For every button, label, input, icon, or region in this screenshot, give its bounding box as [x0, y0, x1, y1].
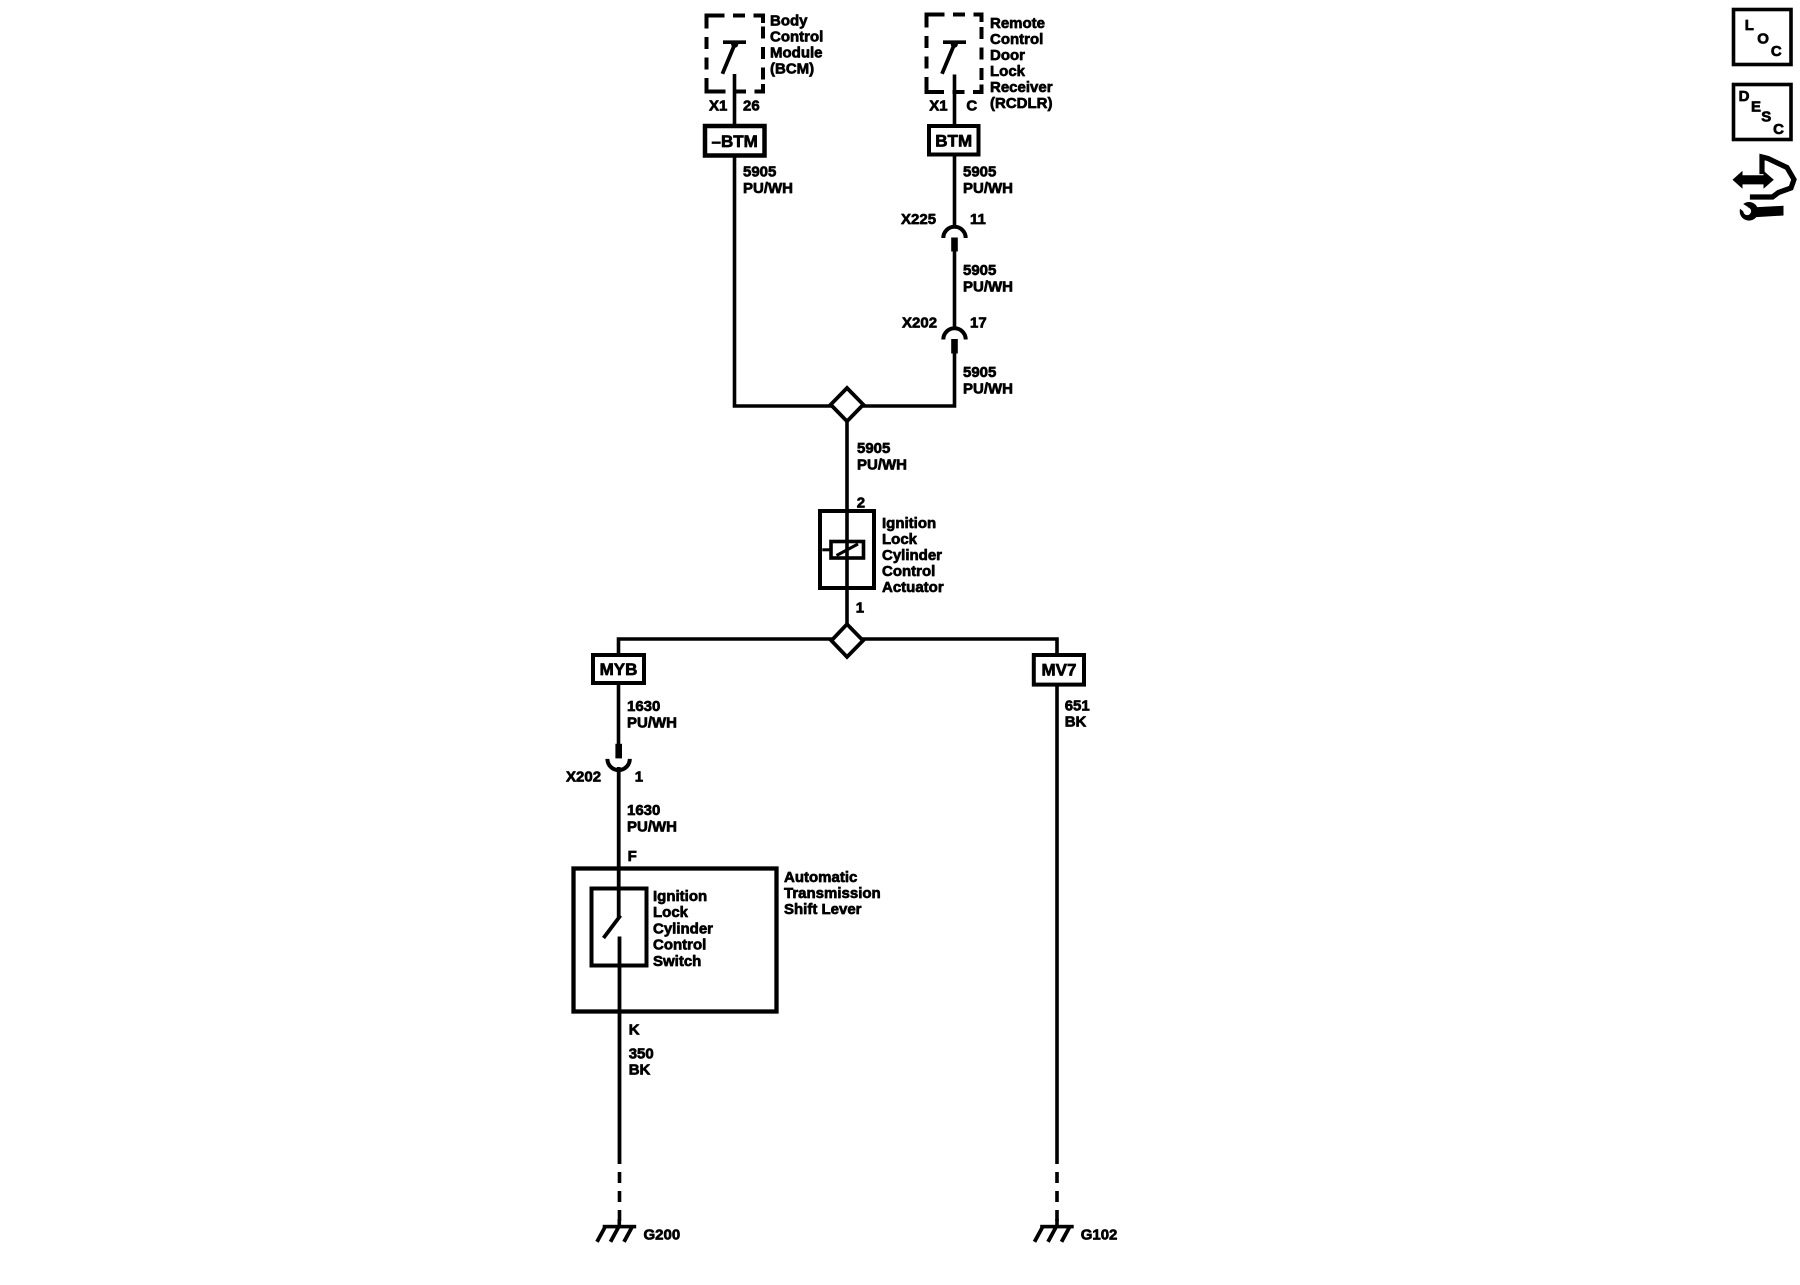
service icon outline shape	[1753, 157, 1795, 197]
svg-text:RemoteControlDoorLockReceiver(: RemoteControlDoorLockReceiver(RCDLR)	[990, 15, 1053, 112]
wire from RCDLR pin C down to X225	[953, 75, 957, 227]
svg-text:C: C	[1771, 43, 1782, 60]
RCDLR internal switch blade	[942, 47, 953, 74]
connector X202 pin 17 (female arc)	[943, 328, 965, 339]
connector MYB box	[593, 655, 644, 683]
splice S2 (diamond)	[831, 624, 863, 657]
connector MV7 box	[1034, 655, 1084, 685]
switch lower contact wire	[618, 937, 622, 1013]
svg-text:F: F	[628, 848, 637, 865]
service icon wrench	[1738, 202, 1784, 221]
ground G200	[597, 1219, 636, 1242]
connector X202 pin 1 (female arc)	[607, 759, 629, 770]
service icon double arrow	[1733, 171, 1774, 189]
BCM internal switch blade	[722, 47, 733, 74]
wire through actuator	[845, 511, 849, 588]
splice S1 (diamond)	[831, 388, 864, 421]
dashed wire to G200	[618, 1172, 622, 1221]
connector X225 pin 11 (female arc)	[943, 227, 965, 238]
svg-text:C: C	[966, 98, 977, 115]
svg-text:C: C	[1773, 121, 1784, 138]
wire X202 pin 1 to shift lever switch (1630 PU/WH)	[617, 767, 621, 917]
module BCM dashed box	[707, 16, 764, 92]
BCM internal switch dot	[731, 41, 738, 48]
svg-text:MYB: MYB	[600, 660, 638, 679]
LOC index box	[1734, 10, 1792, 65]
svg-text:1: 1	[635, 769, 643, 786]
svg-text:E: E	[1751, 99, 1761, 116]
actuator solenoid diagonal	[837, 544, 859, 556]
wire MYB to X202 pin 1 (1630 PU/WH)	[617, 683, 621, 745]
wire MV7 down (651 BK)	[1055, 684, 1059, 1164]
wire X202 to splice junction (5905 PU/WH)	[862, 353, 955, 406]
switch S3 inner box (Ignition Lock Cylinder Control Switch)	[592, 889, 647, 966]
svg-text:5905PU/WH: 5905PU/WH	[963, 364, 1013, 398]
svg-text:11: 11	[970, 211, 986, 228]
RCDLR dashed box corner ticks	[927, 15, 982, 93]
svg-text:1630PU/WH: 1630PU/WH	[627, 698, 677, 732]
actuator dash tick	[822, 548, 831, 551]
connector -BTM box	[705, 126, 765, 156]
svg-text:AutomaticTransmissionShift Lev: AutomaticTransmissionShift Lever	[784, 869, 881, 918]
svg-text:G102: G102	[1081, 1227, 1118, 1244]
svg-text:MV7: MV7	[1042, 660, 1077, 679]
BCM internal switch bar	[723, 40, 746, 44]
svg-text:X1: X1	[929, 98, 947, 115]
wire switch pin K down (350 BK)	[618, 937, 622, 1165]
RCDLR internal switch dot	[951, 41, 958, 48]
svg-text:1: 1	[856, 599, 864, 616]
connector X202 pin 1 (male blade)	[615, 744, 622, 759]
svg-text:BodyControlModule(BCM): BodyControlModule(BCM)	[770, 13, 823, 78]
svg-text:BTM: BTM	[935, 131, 972, 150]
svg-text:5905PU/WH: 5905PU/WH	[963, 164, 1013, 198]
svg-text:L: L	[1745, 17, 1754, 34]
svg-text:26: 26	[743, 98, 760, 115]
connector X202 pin 17 (male blade)	[951, 339, 958, 354]
svg-text:G200: G200	[644, 1227, 681, 1244]
connector BTM box	[929, 126, 979, 155]
svg-text:–BTM: –BTM	[712, 132, 758, 151]
svg-text:X202: X202	[566, 769, 601, 786]
dashed wire to G102	[1055, 1172, 1059, 1221]
wire actuator pin 1 down to splice S2	[845, 588, 849, 626]
svg-text:2: 2	[857, 494, 865, 511]
svg-text:X1: X1	[709, 98, 727, 115]
RCDLR internal switch bar	[943, 40, 966, 44]
svg-text:O: O	[1757, 31, 1769, 48]
svg-text:X225: X225	[901, 211, 936, 228]
ground G102	[1035, 1219, 1074, 1242]
svg-text:5905PU/WH: 5905PU/WH	[743, 164, 793, 198]
svg-text:17: 17	[970, 315, 987, 332]
module RCDLR dashed box	[927, 15, 982, 93]
DESC index box	[1734, 85, 1792, 140]
svg-text:K: K	[629, 1022, 640, 1039]
svg-text:651BK: 651BK	[1065, 697, 1090, 730]
Automatic Transmission Shift Lever box	[574, 869, 777, 1012]
connector X225 pin 11 (male blade)	[951, 238, 958, 252]
wire X225 to X202 (5905 PU/WH)	[953, 251, 957, 328]
svg-text:S: S	[1761, 109, 1771, 126]
wire from BCM pin 26 down to splice junction (5905 PU/WH)	[735, 74, 833, 406]
svg-text:5905PU/WH: 5905PU/WH	[963, 262, 1013, 296]
svg-text:D: D	[1739, 88, 1750, 105]
switch blade	[604, 916, 621, 939]
svg-text:IgnitionLockCylinderControlAct: IgnitionLockCylinderControlActuator	[882, 515, 944, 596]
BCM dashed box corner ticks	[707, 16, 764, 92]
wire splice S1 down to actuator pin 2 (5905 PU/WH)	[845, 420, 849, 588]
svg-text:1630PU/WH: 1630PU/WH	[627, 802, 677, 836]
svg-text:5905PU/WH: 5905PU/WH	[857, 440, 907, 474]
svg-text:350BK: 350BK	[629, 1046, 654, 1079]
actuator U1 box (Ignition Lock Cylinder Control Actuator)	[820, 511, 874, 588]
svg-text:X202: X202	[902, 315, 937, 332]
junction wire to MYB and MV7 branches	[619, 639, 1058, 656]
actuator solenoid element	[831, 542, 864, 559]
wire into switch (inside ATSL box)	[617, 868, 621, 917]
